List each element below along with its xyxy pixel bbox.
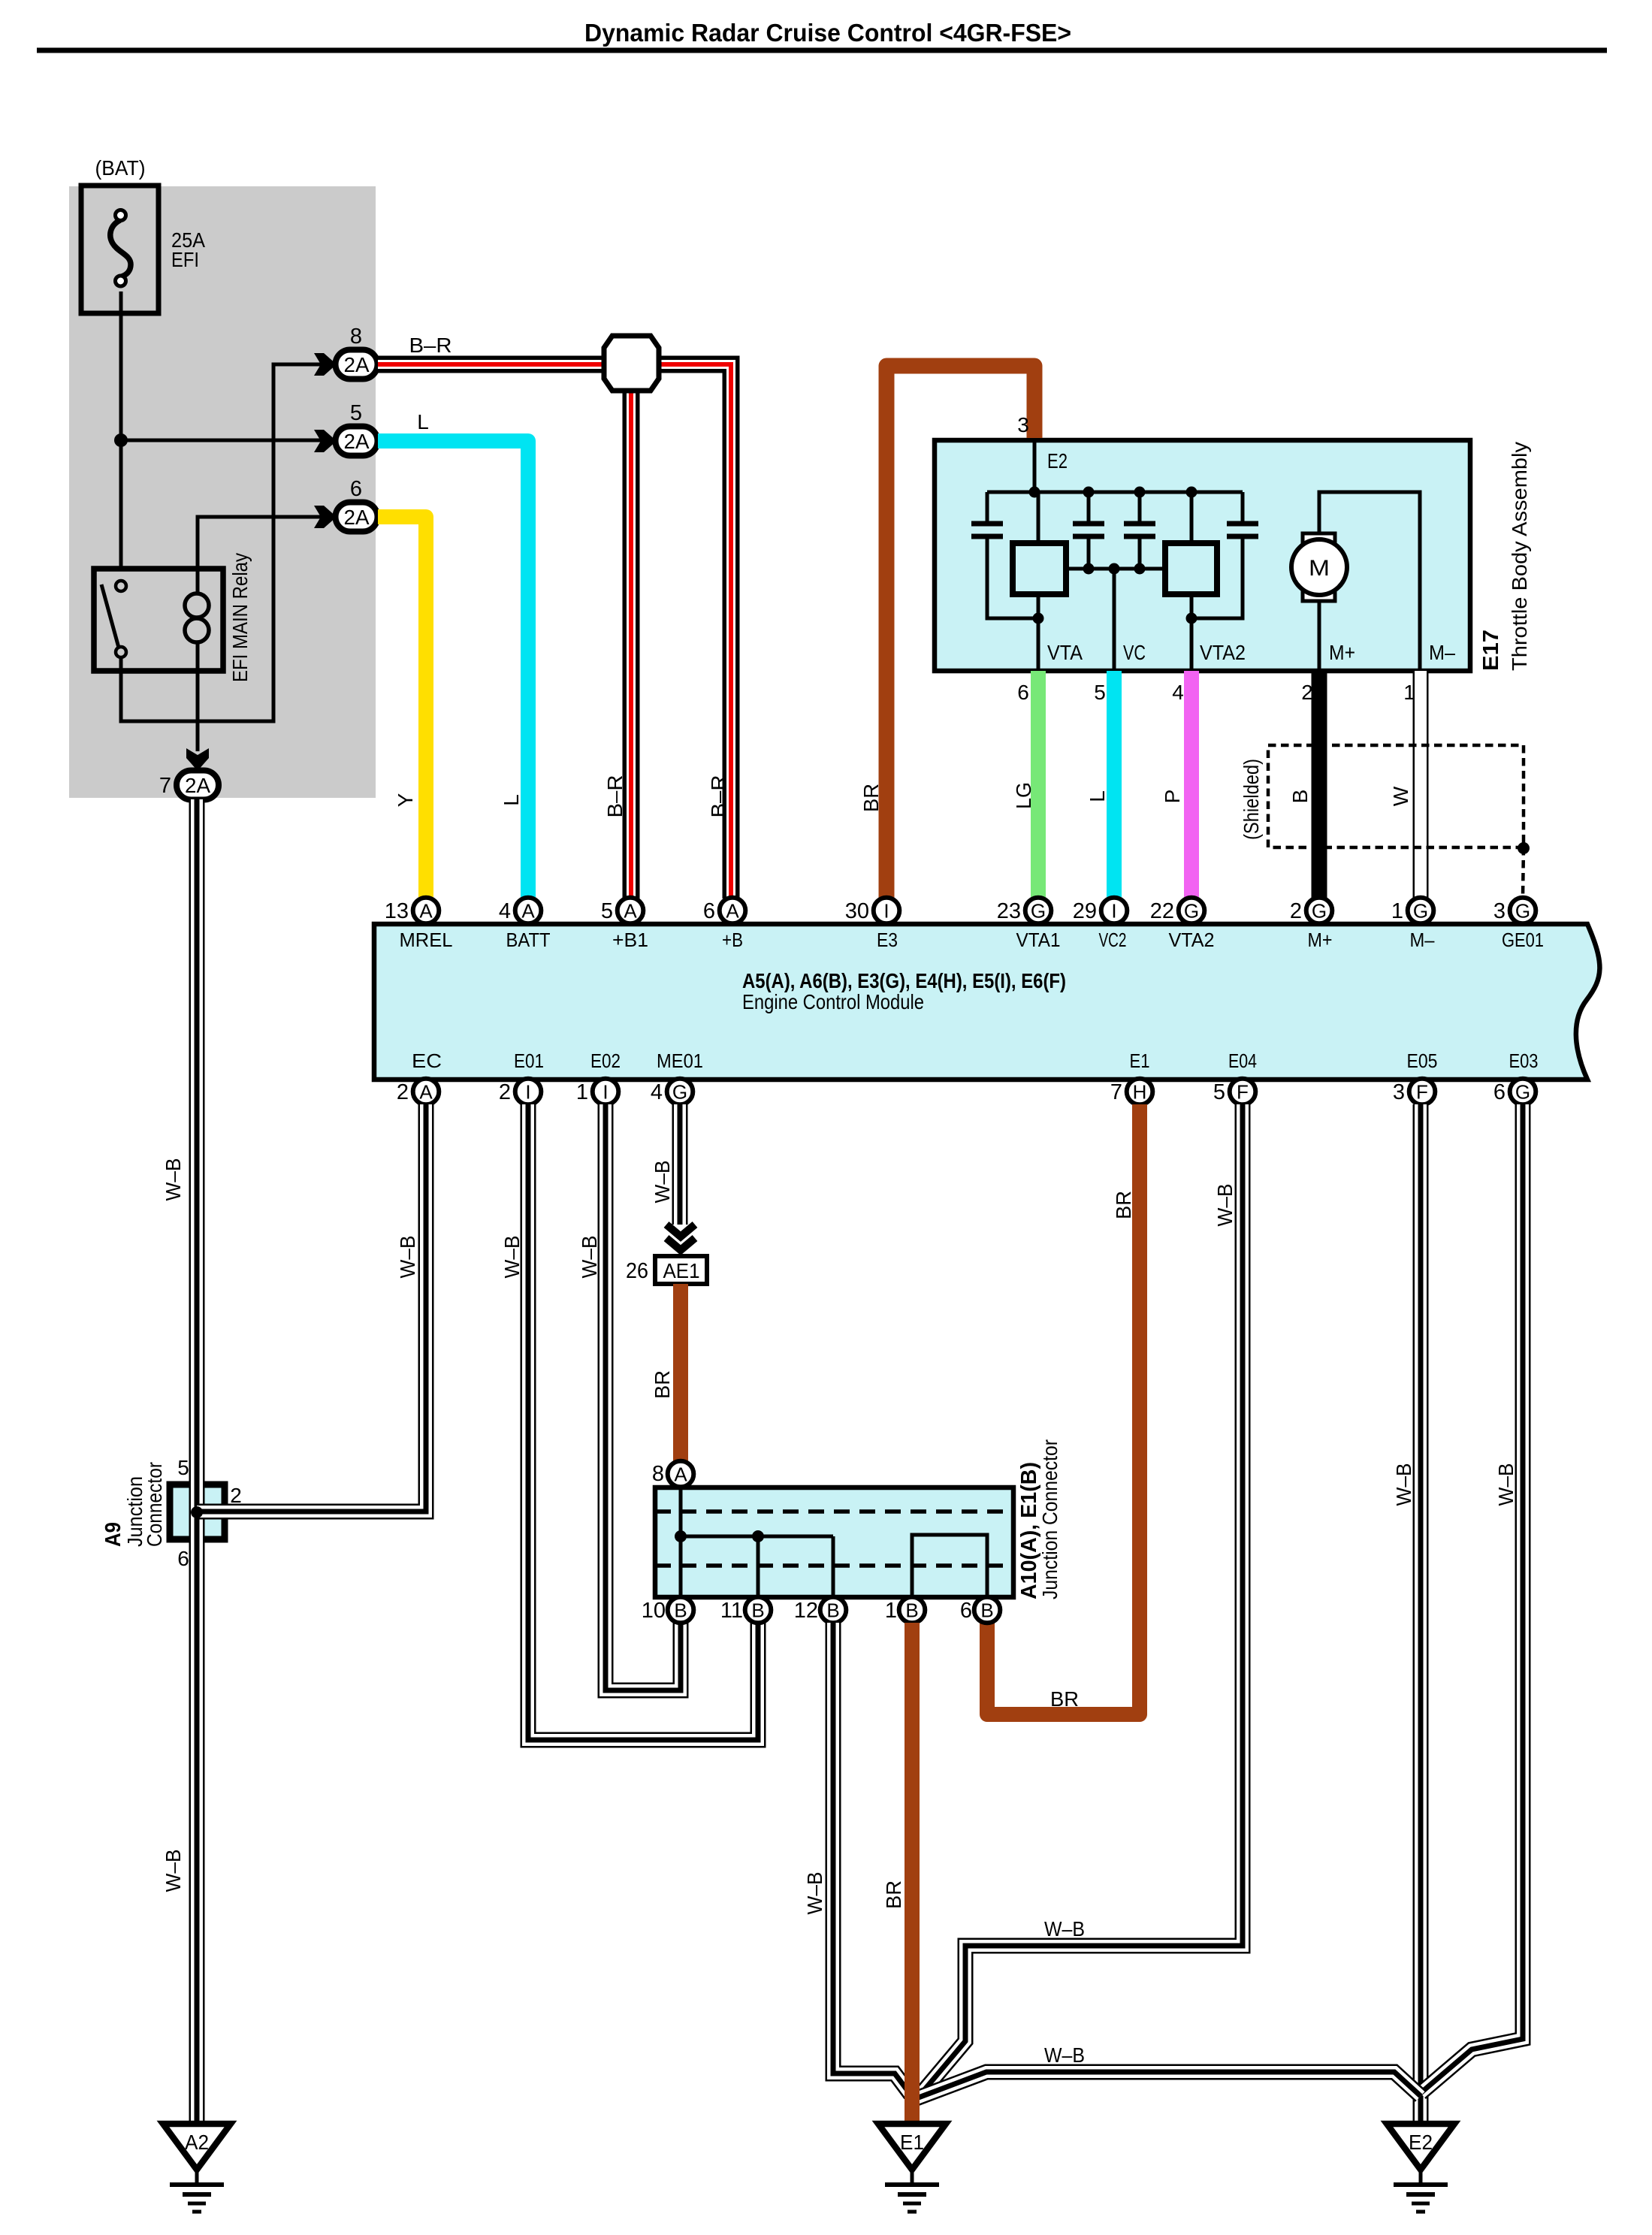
svg-text:(Shielded): (Shielded) [1240,759,1263,840]
svg-text:5: 5 [1213,1080,1225,1104]
svg-text:B: B [905,1599,918,1622]
svg-text:M+: M+ [1329,641,1355,664]
label L vertical [500,794,523,806]
svg-text:W–B: W–B [396,1236,419,1279]
svg-text:Y: Y [394,793,417,807]
svg-text:BR: BR [1050,1687,1079,1711]
wire W-B link E1 to E2 ground [917,2072,1421,2098]
svg-text:1: 1 [1391,899,1403,923]
svg-text:VTA2: VTA2 [1169,929,1215,951]
svg-text:11: 11 [720,1599,743,1623]
svg-text:1: 1 [885,1599,897,1623]
svg-text:2: 2 [1290,899,1302,923]
svg-text:F: F [1237,1081,1249,1104]
svg-text:E17: E17 [1479,630,1503,671]
label W-B horizontal E04 [1044,1917,1085,1941]
svg-text:6: 6 [1493,1080,1506,1104]
svg-text:4: 4 [499,899,511,923]
svg-text:L: L [500,794,523,806]
svg-text:6: 6 [350,477,362,501]
svg-text:G: G [1184,900,1199,923]
svg-text:A: A [521,900,535,923]
svg-text:E3: E3 [877,929,898,951]
junction connector A9 box [170,1484,225,1539]
wire B M+ [1288,671,1319,899]
svg-text:5: 5 [177,1456,189,1479]
svg-text:AE1: AE1 [663,1259,700,1282]
label Y vertical [394,793,417,807]
svg-text:I: I [525,1081,530,1104]
ground E2 [1387,2124,1454,2212]
svg-text:30: 30 [845,899,869,923]
svg-text:2: 2 [1301,681,1313,704]
svg-text:E2: E2 [1047,449,1068,473]
svg-text:ME01: ME01 [657,1050,703,1072]
svg-text:W–B: W–B [162,1850,185,1892]
svg-text:M–: M– [1429,641,1455,664]
svg-text:6: 6 [177,1547,189,1570]
label W-B horizontal link [1044,2043,1085,2067]
label BR vertical [859,784,883,812]
ECM title text [742,969,1066,1013]
svg-text:5: 5 [1094,681,1106,704]
svg-text:BR: BR [1112,1191,1135,1219]
svg-text:G: G [672,1081,687,1104]
svg-text:B: B [751,1599,764,1622]
svg-text:2: 2 [397,1080,409,1104]
svg-text:H: H [1133,1081,1147,1104]
wire branch to 2A pin 5 [121,439,337,442]
svg-text:P: P [1161,790,1184,804]
wire BR from throttle body E2 to ECM E3 [886,366,1034,899]
svg-text:5: 5 [601,899,613,923]
wire LG VTA1 [1012,671,1038,899]
svg-text:Throttle Body Assembly: Throttle Body Assembly [1508,442,1531,671]
svg-text:E05: E05 [1407,1050,1438,1072]
connector 2A pin 8 [314,325,378,379]
svg-text:E1: E1 [900,2131,924,2154]
svg-text:VTA: VTA [1047,641,1083,664]
svg-text:10: 10 [642,1599,666,1623]
svg-text:VC: VC [1123,641,1146,664]
wire BR B1 to E1 ground [882,1623,912,2126]
svg-text:EFI: EFI [171,248,199,271]
svg-text:E03: E03 [1509,1050,1539,1072]
svg-text:I: I [1111,900,1116,923]
svg-text:(BAT): (BAT) [95,156,146,180]
svg-text:I: I [603,1081,608,1104]
ECM pin name labels top [400,929,1545,951]
svg-text:W–B: W–B [1044,1917,1085,1941]
junction connector A10(A),E1(B) box [655,1487,1013,1597]
page continuation chevrons [666,1225,695,1250]
svg-text:I: I [883,900,889,923]
wire L from 2A pin 5 to BATT [378,441,528,899]
ground E1 [878,2124,946,2212]
wire relay coil to 2A pin 6 [198,517,337,569]
svg-text:VTA1: VTA1 [1016,929,1061,951]
connector 2A pin 7 [159,748,219,800]
svg-text:W–B: W–B [651,1161,674,1204]
svg-text:A: A [674,1463,687,1486]
wire W-B E04 to E1 ground [917,1104,1243,2098]
ECM bottom pin connectors [397,1079,1536,1105]
svg-text:E01: E01 [514,1050,544,1072]
svg-text:Engine Control Module: Engine Control Module [742,990,924,1013]
svg-text:4: 4 [651,1080,663,1104]
ECM top pin connectors [385,898,1536,924]
wire relay coil to 2A pin 7 [196,671,200,751]
svg-text:A: A [624,900,637,923]
svg-text:A: A [726,900,739,923]
svg-text:6: 6 [960,1599,972,1623]
svg-text:2A: 2A [344,353,370,376]
svg-text:Dynamic Radar Cruise Control <: Dynamic Radar Cruise Control <4GR-FSE> [584,19,1071,47]
svg-text:W–B: W–B [162,1158,185,1201]
wire W-B B12 to E1 ground [803,1623,911,2095]
svg-text:8: 8 [652,1462,664,1486]
svg-text:3: 3 [1017,413,1029,436]
A10 bottom pin connectors [642,1597,1001,1623]
svg-text:MREL: MREL [400,929,453,951]
svg-text:B–R: B–R [409,334,452,357]
title rule [37,48,1607,53]
svg-text:2A: 2A [344,506,370,529]
svg-text:3: 3 [1493,899,1506,923]
wire W-B E01 to B11 [500,1104,758,1740]
wire relay switch to 2A pin 8 [121,364,337,721]
svg-text:LG: LG [1012,782,1035,809]
svg-text:W–B: W–B [500,1236,524,1279]
svg-text:+B: +B [722,929,743,951]
svg-text:W–B: W–B [1044,2043,1085,2067]
svg-text:EFI MAIN Relay: EFI MAIN Relay [228,553,252,682]
svg-text:Connector: Connector [143,1462,166,1547]
throttle body internal circuit [971,440,1258,671]
connector 2A pin 5 [314,401,378,456]
A10 pin 8 connector [652,1461,693,1487]
relay EFI MAIN Relay [94,553,252,682]
label pin 3 of E2 [1017,413,1029,436]
wire W-B E02 to B10 [578,1104,681,1690]
svg-text:23: 23 [997,899,1021,923]
svg-text:6: 6 [703,899,715,923]
svg-text:7: 7 [159,774,171,798]
shield drain dashed wire [1518,842,1530,897]
svg-text:W–B: W–B [803,1872,826,1915]
svg-text:VTA2: VTA2 [1200,641,1246,664]
svg-text:W–B: W–B [1494,1463,1518,1506]
svg-text:1: 1 [576,1080,588,1104]
wire W-B 2A pin7 to A2 ground [162,799,197,2124]
svg-text:13: 13 [385,899,409,923]
svg-text:22: 22 [1150,899,1174,923]
svg-text:A: A [419,900,433,923]
svg-text:M: M [1309,556,1330,581]
title: Dynamic Radar Cruise Control [584,19,1071,47]
svg-text:M–: M– [1410,929,1435,951]
wire W-B E03 to E2 ground [1421,1104,1523,2093]
svg-text:B–R: B–R [707,775,730,818]
label E17 Throttle Body Assembly [1479,442,1531,671]
wire W-B E05 to E2 ground [1392,1104,1421,2124]
svg-text:BR: BR [882,1880,905,1909]
wire P VTA2 [1161,671,1191,899]
svg-text:EC: EC [412,1050,442,1072]
svg-text:L: L [1086,790,1109,802]
label L horizontal [417,410,429,433]
wire W-B ME01 to AE1 [651,1104,680,1225]
svg-text:4: 4 [1172,681,1184,704]
svg-text:29: 29 [1073,899,1097,923]
svg-text:12: 12 [794,1599,818,1623]
octagon junction [604,336,659,391]
svg-text:6: 6 [1017,681,1029,704]
connector AE1 pin 26 [626,1256,707,1284]
svg-text:26: 26 [626,1259,648,1283]
svg-text:2A: 2A [344,430,370,453]
svg-text:A: A [419,1081,433,1104]
svg-text:8: 8 [350,325,362,349]
svg-text:B: B [980,1599,993,1622]
throttle body assembly box E17 [935,440,1470,671]
svg-text:BATT: BATT [506,929,551,951]
svg-text:B–R: B–R [603,775,627,818]
label B-R vertical 1 [603,775,627,818]
svg-text:B: B [1288,790,1312,804]
label A10(A), E1(B) Junction Connector [1017,1439,1062,1599]
svg-text:W–B: W–B [578,1236,601,1279]
wire fuse to relay [119,291,123,569]
svg-text:Junction Connector: Junction Connector [1038,1439,1062,1599]
svg-text:5: 5 [350,401,362,425]
wire Y from 2A pin 6 to MREL [378,517,426,899]
svg-text:2: 2 [499,1080,511,1104]
junction node at fuse output [114,433,128,447]
wire BR AE1 to A10 pin 8 [651,1284,681,1463]
svg-text:W–B: W–B [1392,1463,1415,1506]
motor M throttle actuator [1291,492,1455,671]
svg-text:VC2: VC2 [1099,929,1127,951]
junction connector A10 internals [655,1487,1013,1597]
svg-text:G: G [1413,900,1428,923]
svg-text:W: W [1389,786,1412,806]
wire B-R from 2A pin 8 to +B1/+B [378,364,731,899]
svg-text:2A: 2A [185,774,210,797]
svg-text:A2: A2 [185,2131,209,2154]
svg-text:G: G [1312,900,1327,923]
svg-text:A9: A9 [101,1522,125,1547]
svg-text:E04: E04 [1228,1050,1257,1072]
svg-text:GE01: GE01 [1502,929,1544,951]
engine control module box [374,924,1599,1080]
svg-text:7: 7 [1110,1080,1122,1104]
svg-text:B: B [674,1599,687,1622]
fuse 25A EFI [81,156,205,313]
svg-text:A5(A), A6(B), E3(G), E4(H), E5: A5(A), A6(B), E3(G), E4(H), E5(I), E6(F) [742,969,1066,992]
svg-text:L: L [417,410,429,433]
svg-text:G: G [1515,900,1530,923]
wire W M- [1389,671,1421,899]
label B-R horizontal [409,334,452,357]
connector 2A pin 6 [314,477,378,532]
svg-text:G: G [1515,1081,1530,1104]
junction connector A9 [101,1456,242,1570]
ECM pin name labels bottom [412,1050,1539,1072]
svg-text:F: F [1416,1081,1428,1104]
svg-text:BR: BR [651,1370,674,1399]
svg-text:E2: E2 [1409,2131,1433,2154]
svg-text:E02: E02 [590,1050,621,1072]
svg-text:G: G [1031,900,1046,923]
gray power-source area [69,186,376,798]
wire W-B EC to A9 [225,1104,426,1512]
wire L VC2 [1086,671,1114,899]
svg-text:B: B [826,1599,839,1622]
ground A2 [163,2124,231,2212]
label B-R vertical 2 [707,775,730,818]
svg-text:BR: BR [859,784,883,812]
label BR horizontal near B6 [1050,1687,1079,1711]
svg-text:+B1: +B1 [612,929,648,951]
svg-text:3: 3 [1393,1080,1405,1104]
svg-text:W–B: W–B [1213,1184,1237,1227]
svg-text:E1: E1 [1130,1050,1150,1072]
shielded cable box [1240,745,1524,847]
svg-text:M+: M+ [1308,929,1333,951]
wire BR ECM E1 to B6 [987,1104,1140,1714]
throttle body pin numbers [1017,681,1415,704]
svg-text:2: 2 [230,1484,242,1507]
